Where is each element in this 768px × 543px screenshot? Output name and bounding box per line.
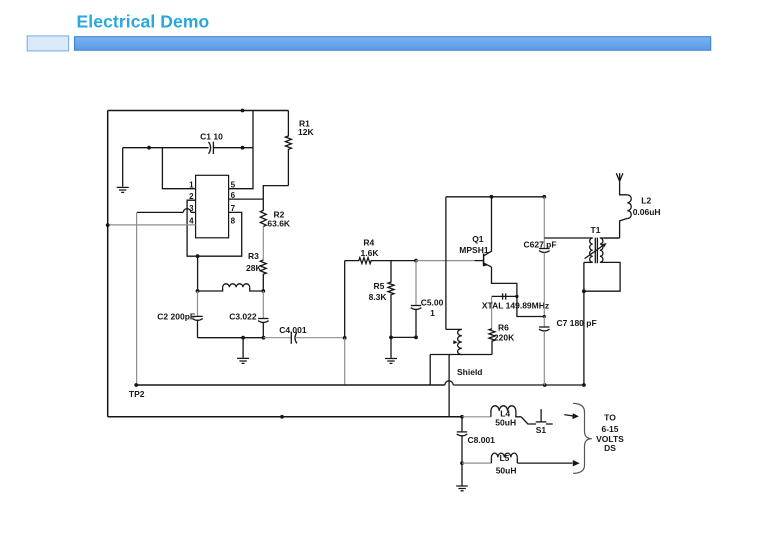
ground (under R5) [390, 337, 392, 358]
crystal XTAL [492, 295, 517, 297]
wire: pin4 lead (gray) [108, 224, 196, 226]
wire: pin2 loop down and up to pin7 [187, 200, 242, 256]
wire: V+ top rail [108, 110, 289, 112]
svg-text:C8.001: C8.001 [468, 435, 496, 445]
svg-text:Shield: Shield [457, 367, 483, 377]
wire: antenna stem [620, 181, 628, 195]
svg-text:XTAL 149.89MHz: XTAL 149.89MHz [482, 300, 549, 310]
resistor R4 [345, 258, 416, 264]
node: dot C4 to R4 vertical [343, 336, 347, 340]
capacitor C3 [262, 291, 264, 318]
shield outline [430, 354, 492, 356]
node: dot L row right [261, 289, 265, 293]
wire: R4 left vertical to TP2 line [344, 261, 346, 338]
capacitor C5 [415, 261, 417, 306]
svg-text:8: 8 [231, 216, 236, 225]
node: dot on pin2 loop [196, 254, 200, 258]
wire: TP2 ground line [136, 384, 445, 386]
svg-text:3: 3 [189, 204, 194, 213]
switch S1 [540, 409, 542, 422]
node: dot on left rail at pin4 net [106, 223, 110, 227]
svg-text:TP2: TP2 [129, 389, 145, 399]
resistor R1 [285, 111, 291, 186]
wire: drop from top rail to pin5 [229, 111, 253, 189]
wire: emitter path [492, 267, 545, 317]
wire: lead to L4 [462, 416, 491, 418]
node: dot T1 bottom [582, 289, 586, 293]
wire: slant to switch [521, 417, 536, 424]
node: dot gnd row [241, 336, 245, 340]
header blue bar [75, 37, 711, 51]
resistor R2 [260, 199, 266, 226]
wire: xtal left leg [491, 296, 493, 328]
svg-text:6-15: 6-15 [601, 424, 618, 434]
wire: pin1 branch from C1 row [162, 148, 195, 189]
wire: C6 node to T1 primary [544, 237, 592, 239]
wire: coil bottom down to supply row [448, 355, 450, 417]
wire: gray link R2 to R3 [262, 227, 264, 261]
ground (top-left) [122, 148, 124, 187]
wire: T1 secondary bottom loop [584, 262, 620, 291]
resistor R3 [260, 260, 266, 291]
svg-text:C7 180 pF: C7 180 pF [557, 318, 597, 328]
ground (under C8) [461, 463, 463, 485]
header small light-blue block [27, 36, 68, 51]
svg-text:T1: T1 [591, 225, 601, 235]
svg-text:50uH: 50uH [496, 466, 517, 476]
svg-text:TO: TO [604, 413, 616, 423]
inductor L1 row [198, 287, 223, 291]
wire: branch from pin2 loop down to L row [197, 256, 199, 291]
wire: ground row under C2/C3 [198, 337, 264, 339]
wire: vertical from pin3 lead to TP2 [136, 212, 138, 385]
wire: Q1 collector top rail [446, 196, 544, 198]
node: dot xtal/emitter [515, 295, 518, 298]
svg-text:S1: S1 [536, 425, 547, 435]
svg-text:0.06uH: 0.06uH [633, 207, 661, 217]
node: dot L row left [196, 289, 200, 293]
svg-text:C5.00: C5.00 [421, 297, 444, 307]
node: dot R4/C5/base [414, 259, 418, 263]
svg-text:12K: 12K [298, 127, 314, 137]
svg-text:R4: R4 [363, 237, 374, 247]
wire: Q1 box left vertical [445, 197, 447, 330]
wire: R5 bottom row to C5 [391, 336, 416, 338]
node: dot C7 bottom on ground line [543, 383, 547, 387]
svg-text:R5: R5 [374, 281, 385, 291]
svg-text:5: 5 [231, 180, 236, 189]
svg-text:C1 10: C1 10 [200, 131, 223, 141]
node: junction dot on top rail [241, 109, 245, 113]
antenna [616, 173, 623, 181]
svg-text:C4.001: C4.001 [279, 325, 307, 335]
transistor Q1 [484, 197, 492, 256]
svg-text:220K: 220K [494, 332, 515, 342]
svg-text:Electrical Demo: Electrical Demo [77, 12, 210, 32]
node: small dot emitter line to C7 [543, 315, 546, 318]
svg-text:C2 200pF: C2 200pF [157, 312, 195, 322]
node: dot R5 bottom [389, 336, 393, 340]
node: dot C8 top [460, 415, 464, 419]
arrow to battery plus [564, 415, 573, 416]
capacitor C2 [197, 291, 199, 316]
wire: lead to L5 [462, 462, 492, 464]
wire: L2 bottom to T1 [604, 237, 620, 239]
node: dot T1 return on ground line [582, 383, 586, 387]
wire: R1 bottom jog to pin6 node [263, 186, 288, 200]
transformer T1 [590, 238, 593, 262]
svg-text:Q1: Q1 [472, 234, 484, 244]
svg-text:2: 2 [189, 192, 194, 201]
node: dot C6 top [542, 195, 546, 199]
svg-text:50uH: 50uH [495, 417, 516, 427]
wire: C1 row right [213, 147, 253, 149]
svg-text:28K: 28K [246, 263, 262, 273]
capacitor C1 [209, 142, 211, 154]
node: TP2 dot [134, 383, 138, 387]
wire: bottom supply row [108, 416, 462, 418]
svg-text:R3: R3 [248, 251, 259, 261]
svg-text:L2: L2 [641, 196, 651, 206]
svg-text:MPSH1: MPSH1 [459, 245, 489, 255]
node: dot C5 bottom [414, 336, 418, 340]
svg-text:1: 1 [430, 308, 435, 318]
wire: C1 row left [123, 147, 209, 149]
svg-text:C627 pF: C627 pF [524, 240, 557, 250]
node: dot C3 bottom [262, 336, 266, 340]
svg-text:8.3K: 8.3K [369, 292, 388, 302]
svg-text:1.6K: 1.6K [361, 248, 380, 258]
wire: pin6 lead [229, 198, 264, 200]
svg-text:C3.022: C3.022 [229, 312, 257, 322]
node: dot left on C1 row [147, 146, 151, 150]
svg-text:1: 1 [189, 180, 194, 189]
capacitor C8 [461, 417, 463, 432]
capacitor C4 [264, 337, 292, 339]
brace to supply [573, 403, 592, 473]
inductor L4 [490, 411, 492, 417]
capacitor C6 [543, 197, 545, 249]
resistor R6 [489, 329, 495, 355]
wire: left outer vertical [107, 111, 109, 417]
ground (under C2/C3 row) [242, 338, 244, 358]
op-amp U1 (IC body) [196, 175, 229, 238]
wire: T1 primary bottom to ground line [584, 261, 593, 263]
svg-text:L5: L5 [499, 453, 509, 463]
svg-text:R6: R6 [498, 323, 509, 333]
wire: pin3 lead with hop [137, 211, 183, 213]
svg-text:7: 7 [231, 204, 236, 213]
node: dot C8 bottom / L5 [460, 461, 464, 465]
inductor L2 [627, 195, 631, 219]
inductor L5 [490, 457, 492, 463]
wire: L5 to arrow [517, 462, 572, 464]
wire: T1 secondary top to L2 [600, 237, 620, 239]
wire: base lead gray [416, 260, 475, 262]
node: dot collector top [490, 195, 494, 199]
svg-text:63.6K: 63.6K [267, 218, 291, 228]
svg-text:4: 4 [189, 216, 194, 225]
node: dot on supply row [280, 415, 284, 419]
svg-text:DS: DS [604, 443, 616, 453]
capacitor C7 [543, 317, 545, 328]
node: dot on C1 row [241, 146, 245, 150]
inductor tuning coil in shield [446, 328, 462, 330]
resistor R5 [388, 261, 394, 338]
